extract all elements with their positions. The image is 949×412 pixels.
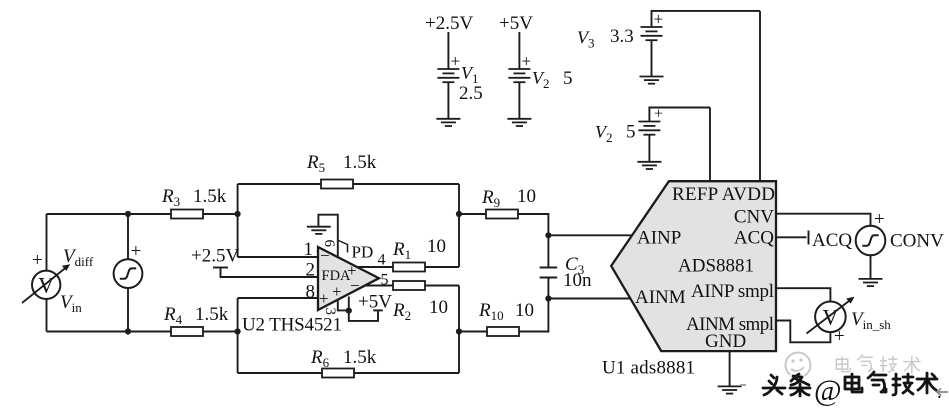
wire R9 left — [459, 213, 486, 215]
svg-text:8: 8 — [306, 282, 316, 303]
wire R10 right — [519, 278, 548, 332]
resistor R2 — [393, 281, 425, 290]
wire voltmeter bottom stub — [46, 299, 48, 332]
svg-text:+: + — [654, 10, 664, 29]
wire R5 left — [238, 183, 321, 185]
svg-text:1: 1 — [304, 239, 314, 260]
svg-text:U2 THS4521: U2 THS4521 — [242, 315, 342, 336]
svg-text:+: + — [32, 250, 43, 271]
svg-text:+: + — [131, 241, 142, 262]
svg-text:GND: GND — [705, 331, 746, 352]
svg-text:10: 10 — [427, 236, 446, 257]
svg-text:+: + — [522, 52, 532, 71]
resistor R1 — [393, 263, 425, 272]
svg-text:10: 10 — [429, 297, 448, 318]
svg-text:REFP AVDD: REFP AVDD — [672, 184, 775, 205]
wire AVDD — [759, 11, 761, 181]
svg-text:PD: PD — [352, 243, 374, 262]
resistor R9 — [486, 210, 518, 219]
svg-text:1.5k: 1.5k — [343, 152, 377, 173]
wire voltmeter top stub — [46, 214, 48, 271]
wire pin1 — [238, 256, 318, 258]
node R9 junction — [456, 211, 462, 217]
voltmeter V (Vdiff/Vin) — [22, 250, 70, 303]
wire R9 right — [518, 214, 548, 268]
battery V2 lower — [637, 106, 710, 170]
ACQ tick — [808, 231, 810, 245]
svg-text:CNV: CNV — [734, 207, 774, 228]
ground ADC — [718, 386, 742, 393]
battery V1 — [436, 32, 460, 126]
watermark gray logo — [786, 353, 811, 378]
svg-text:U1 ads8881: U1 ads8881 — [602, 358, 695, 379]
svg-text:+5V: +5V — [499, 13, 533, 34]
node R10 junction — [456, 328, 462, 334]
resistor R4 — [171, 327, 203, 336]
svg-text:10: 10 — [517, 186, 536, 207]
wire top rail after R3 — [203, 213, 238, 215]
wire output+ stub — [357, 266, 393, 268]
node AINM junction — [545, 295, 551, 301]
wire bottom rail left — [47, 331, 172, 333]
svg-text:+: + — [319, 289, 329, 308]
wire sine source bottom stub — [127, 288, 129, 332]
resistor R3 — [171, 210, 203, 219]
wire top rail left — [47, 213, 172, 215]
watermark small tick left — [740, 384, 746, 386]
wire GND pin — [729, 351, 731, 386]
wire output node vertical bottom — [458, 286, 460, 374]
watermark gray text — [836, 355, 920, 374]
battery V2 — [507, 32, 531, 126]
svg-text:+2.5V: +2.5V — [191, 246, 239, 267]
capacitor C3 — [540, 268, 558, 278]
ADC U1 ADS8881 — [611, 181, 776, 351]
node pin3 — [346, 308, 352, 314]
node sine source top — [125, 211, 131, 217]
source CONV — [856, 209, 886, 286]
svg-text:AINM: AINM — [635, 287, 686, 308]
wire REFP — [709, 108, 711, 182]
wire R5 right — [353, 183, 459, 185]
ground bracket wire — [318, 215, 348, 311]
svg-text:10: 10 — [515, 300, 534, 321]
svg-text:ADS8881: ADS8881 — [678, 256, 754, 277]
wire pin3 to +5V — [349, 297, 378, 321]
svg-text:CONV: CONV — [890, 231, 944, 252]
svg-text:AINP smpl: AINP smpl — [691, 281, 774, 302]
svg-text:ACQ: ACQ — [734, 228, 774, 249]
resistor R10 — [487, 327, 519, 336]
svg-text:+: + — [874, 209, 885, 230]
wire R6 left — [238, 372, 322, 374]
wire bottom rail after R4 — [203, 331, 238, 333]
svg-text:+: + — [451, 52, 461, 71]
wire ACQ — [776, 236, 807, 238]
svg-text:AINP: AINP — [637, 228, 681, 249]
wire pin8 — [238, 297, 318, 299]
svg-text:2.5: 2.5 — [459, 83, 483, 104]
watermark small arrow right — [937, 389, 948, 396]
wire AINM — [548, 298, 630, 300]
resistor R6 — [322, 369, 354, 378]
wire R6 right — [354, 372, 459, 374]
wire R4 node vertical — [237, 298, 239, 373]
wire sine source top stub — [127, 214, 129, 259]
svg-text:5: 5 — [626, 122, 636, 143]
wire R3 node vertical — [237, 184, 239, 257]
wire AINP smpl — [776, 288, 830, 301]
voltmeter Vin_sh — [807, 297, 855, 347]
svg-text:1.5k: 1.5k — [343, 347, 377, 368]
svg-text:3.3: 3.3 — [610, 26, 634, 47]
wire AINM smpl — [776, 321, 830, 343]
svg-text:1.5k: 1.5k — [195, 304, 229, 325]
svg-text:+: + — [654, 106, 663, 123]
ground above op-amp — [307, 227, 331, 234]
wire R1 right — [425, 266, 459, 268]
supply +2.5V terminal — [213, 268, 318, 278]
PD bracket — [339, 241, 348, 253]
wire AINP — [548, 234, 633, 236]
resistor R5 — [321, 180, 353, 189]
svg-text:FDA: FDA — [322, 268, 352, 284]
supply +5V terminal — [349, 297, 383, 321]
watermark black text 头条@电气技术 — [763, 372, 942, 407]
svg-text:ACQ: ACQ — [812, 230, 852, 251]
wire CNV — [776, 214, 871, 226]
svg-text:+: + — [332, 282, 342, 301]
svg-text:+: + — [834, 326, 845, 347]
svg-text:+2.5V: +2.5V — [425, 13, 473, 34]
node AINP junction — [545, 232, 551, 238]
svg-text:V: V — [38, 273, 54, 298]
svg-text:10n: 10n — [563, 270, 592, 291]
svg-text:−: − — [320, 246, 330, 265]
svg-text:4: 4 — [378, 252, 386, 269]
svg-text:5: 5 — [563, 68, 573, 89]
wire R10 left — [459, 331, 487, 333]
source VG1 sine — [114, 241, 143, 288]
battery V3 — [640, 10, 761, 84]
op-amp U2 THS4521 — [304, 215, 389, 315]
svg-text:@: @ — [814, 374, 842, 407]
node R3 junction — [235, 211, 241, 217]
wire output node vertical top — [458, 184, 460, 267]
wire R2 right — [425, 285, 459, 287]
wire output- stub — [364, 285, 393, 287]
node sine source bottom — [125, 328, 131, 334]
op-amp triangle — [318, 247, 379, 310]
node R4 junction — [235, 328, 241, 334]
svg-text:+5V: +5V — [358, 292, 392, 313]
svg-text:1.5k: 1.5k — [193, 186, 227, 207]
